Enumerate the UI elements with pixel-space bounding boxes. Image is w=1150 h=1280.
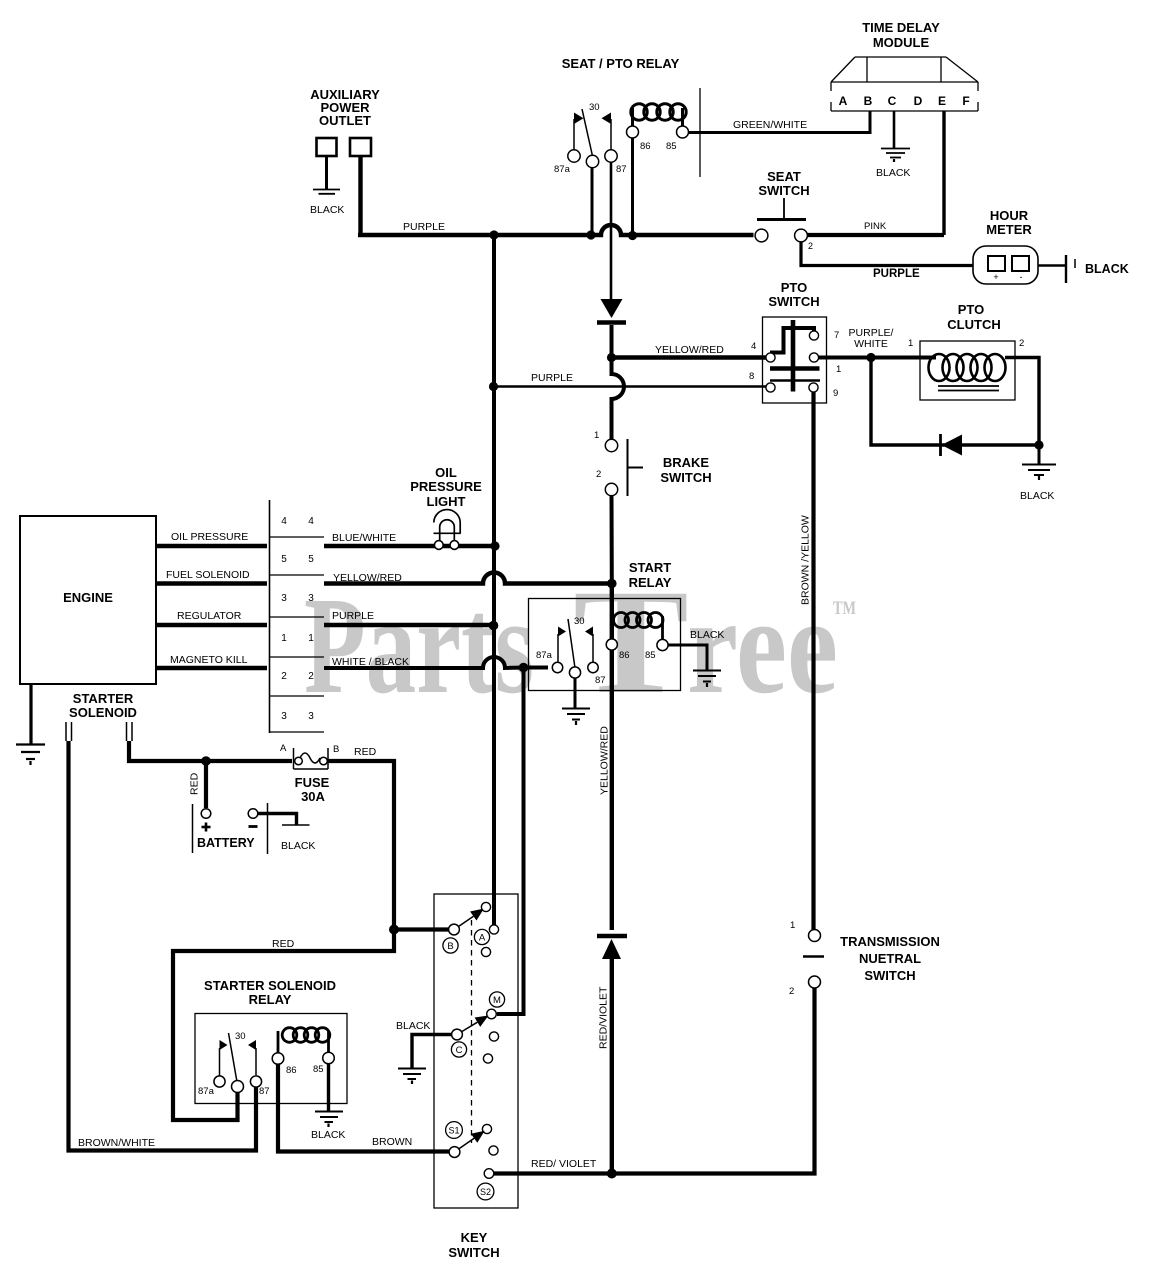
key switch contact C bbox=[452, 1029, 463, 1040]
ssr contact circle 87a bbox=[214, 1076, 225, 1087]
battery left plate bbox=[192, 804, 194, 853]
svg-text:1: 1 bbox=[308, 633, 314, 644]
stray vertical line bbox=[699, 88, 701, 177]
wire aux terminal1 to ground bbox=[325, 156, 328, 189]
svg-text:BLACK: BLACK bbox=[281, 840, 315, 852]
wire black key C to ground bbox=[412, 1035, 452, 1069]
seat switch label bbox=[758, 169, 809, 198]
svg-text:BRAKE: BRAKE bbox=[663, 455, 710, 470]
node junction yellowred/x611 relay bbox=[607, 579, 617, 589]
key switch arrow B-A bbox=[470, 909, 484, 921]
pto switch pin 8 circle bbox=[766, 383, 775, 392]
svg-text:1: 1 bbox=[836, 364, 841, 375]
svg-text:BLACK: BLACK bbox=[396, 1020, 430, 1032]
svg-text:PURPLE: PURPLE bbox=[332, 610, 374, 622]
wire relay 87 down to diode bbox=[610, 162, 613, 300]
transmission neutral switch label bbox=[840, 934, 940, 983]
key switch right circle ign bbox=[489, 925, 498, 934]
key switch arrow C-M bbox=[475, 1016, 489, 1027]
starter solenoid label bbox=[69, 691, 137, 720]
svg-text:3: 3 bbox=[281, 711, 287, 722]
wire starter solenoid pin2 to fuse bbox=[129, 741, 292, 761]
svg-text:BROWN /YELLOW: BROWN /YELLOW bbox=[800, 515, 812, 605]
ground engine bbox=[16, 745, 45, 766]
svg-text:METER: METER bbox=[986, 222, 1032, 237]
svg-text:BLACK: BLACK bbox=[690, 629, 724, 641]
svg-text:SEAT: SEAT bbox=[767, 169, 801, 184]
key switch contact B bbox=[449, 924, 460, 935]
wire start relay 85 to ground bbox=[668, 645, 707, 670]
wire hour meter right bbox=[1038, 264, 1066, 267]
svg-text:PTO: PTO bbox=[958, 302, 985, 317]
svg-text:30A: 30A bbox=[301, 789, 325, 804]
wire module pin E down bbox=[942, 111, 945, 235]
wire green/white relay 85 to module B bbox=[689, 111, 871, 133]
svg-text:CLUTCH: CLUTCH bbox=[947, 317, 1000, 332]
key switch contact S1 bbox=[449, 1147, 460, 1158]
svg-text:+: + bbox=[993, 272, 998, 282]
seat/pto relay pivot circle bbox=[586, 155, 598, 167]
start relay label bbox=[629, 560, 672, 590]
svg-text:OIL: OIL bbox=[435, 465, 457, 480]
label circled S2 bbox=[477, 1183, 494, 1200]
wire yellow/red row with hump bbox=[324, 573, 612, 584]
wire module pin C to ground bbox=[893, 111, 896, 148]
pto switch internal pole bar bbox=[791, 320, 796, 392]
wire diode to yellowred junction bbox=[610, 325, 614, 354]
key switch contact M bbox=[487, 1009, 497, 1019]
time delay module body bbox=[831, 57, 978, 111]
label circled A bbox=[474, 929, 489, 944]
ground aux outlet bbox=[313, 190, 340, 194]
label circled S1 bbox=[446, 1122, 463, 1139]
engine connector separators bbox=[270, 537, 325, 732]
start relay contact circle 87a bbox=[552, 662, 562, 672]
starter solenoid relay label bbox=[204, 978, 336, 1007]
start relay coil bbox=[613, 613, 664, 640]
aux outlet terminal 2 bbox=[350, 138, 371, 156]
brake switch label bbox=[660, 455, 711, 485]
pto switch internal low bar bbox=[770, 379, 820, 381]
seat/pto relay coil pin 85 bbox=[677, 126, 689, 138]
svg-text:85: 85 bbox=[645, 650, 656, 661]
oil pressure light label bbox=[410, 465, 482, 509]
aux outlet terminal 1 bbox=[317, 138, 337, 156]
pto clutch box bbox=[920, 341, 1015, 400]
wire relay pivot to bus bbox=[591, 168, 594, 234]
ground battery bbox=[282, 824, 310, 826]
seat switch contact right bbox=[795, 229, 808, 242]
node junction whiteblack/x523 bbox=[519, 663, 529, 673]
pto switch pin labels bbox=[749, 330, 841, 399]
fuse symbol bbox=[294, 748, 329, 769]
svg-text:87: 87 bbox=[595, 675, 606, 686]
svg-text:YELLOW/RED: YELLOW/RED bbox=[599, 726, 611, 795]
node junction bus/relay-pivot bbox=[586, 230, 595, 239]
start relay coil pin 86 bbox=[606, 639, 617, 650]
seat/pto relay coil pin 86 bbox=[627, 126, 639, 138]
seat switch actuator bbox=[757, 198, 806, 220]
svg-text:SWITCH: SWITCH bbox=[448, 1245, 499, 1260]
key switch contact S2 bbox=[484, 1169, 494, 1179]
wire red to starter solenoid relay 30 bbox=[173, 930, 394, 1121]
hour meter body bbox=[973, 246, 1038, 284]
svg-text:5: 5 bbox=[281, 554, 287, 565]
svg-text:E: E bbox=[938, 94, 946, 108]
key switch circle mid1 bbox=[489, 1032, 498, 1041]
label circled M bbox=[489, 992, 504, 1007]
svg-text:Parts: Parts bbox=[304, 569, 534, 723]
svg-text:3: 3 bbox=[308, 593, 314, 604]
svg-text:YELLOW/RED: YELLOW/RED bbox=[333, 572, 402, 584]
ground module bbox=[881, 149, 910, 163]
svg-text:MODULE: MODULE bbox=[873, 35, 930, 50]
svg-text:RED: RED bbox=[272, 938, 295, 950]
starter solenoid pin 1 bbox=[66, 722, 72, 741]
wire pink seat switch to module E bbox=[807, 233, 944, 237]
wire blue/white row bbox=[324, 544, 495, 548]
wire brake sw2 down to start relay junction bbox=[610, 496, 614, 584]
svg-text:ENGINE: ENGINE bbox=[63, 590, 113, 605]
svg-text:BLACK: BLACK bbox=[876, 167, 910, 179]
diode clutch bbox=[941, 434, 963, 456]
svg-text:D: D bbox=[914, 94, 923, 108]
svg-text:C: C bbox=[456, 1045, 463, 1056]
svg-text:RED/ VIOLET: RED/ VIOLET bbox=[531, 1158, 597, 1170]
svg-text:A: A bbox=[479, 933, 486, 944]
svg-text:SOLENOID: SOLENOID bbox=[69, 705, 137, 720]
key switch arm B-A bbox=[459, 916, 474, 926]
svg-text:87a: 87a bbox=[198, 1086, 215, 1097]
svg-text:87: 87 bbox=[259, 1086, 270, 1097]
svg-text:BLACK: BLACK bbox=[310, 204, 344, 216]
seat/pto relay contact circle 87 bbox=[605, 150, 617, 162]
wire yellow/red to pto pin4 bbox=[612, 355, 767, 359]
pto switch internal contact 4-7 path bbox=[770, 328, 814, 353]
wire pto pin1 to clutch bbox=[819, 356, 937, 360]
engine box bbox=[20, 516, 156, 684]
node junction bus/relay-86 bbox=[628, 231, 637, 240]
battery minus sign bbox=[249, 825, 258, 828]
ground start relay 85 bbox=[693, 671, 721, 688]
start relay box bbox=[529, 599, 681, 691]
wire battery minus to ground bbox=[258, 814, 297, 825]
node junction red/battery bbox=[201, 756, 211, 766]
svg-text:PURPLE: PURPLE bbox=[873, 268, 920, 280]
node junction diode/ground bbox=[1034, 440, 1043, 449]
transmission neutral switch contact 1 bbox=[809, 930, 821, 942]
start relay contact 87a stub and arrow bbox=[558, 627, 566, 664]
svg-text:86: 86 bbox=[619, 650, 630, 661]
svg-text:SEAT / PTO RELAY: SEAT / PTO RELAY bbox=[562, 56, 680, 71]
ground key switch C bbox=[398, 1069, 426, 1085]
wire clutch diode row bbox=[871, 358, 1039, 446]
svg-text:BLUE/WHITE: BLUE/WHITE bbox=[332, 532, 396, 544]
svg-text:S1: S1 bbox=[448, 1126, 459, 1136]
starter solenoid pin 2 bbox=[127, 722, 133, 741]
svg-text:2: 2 bbox=[808, 241, 813, 251]
wire white/black row with hump bbox=[324, 657, 548, 668]
svg-text:OIL PRESSURE: OIL PRESSURE bbox=[171, 531, 248, 543]
label circled B bbox=[443, 938, 458, 953]
wire x494 vertical bus to key switch bbox=[492, 235, 496, 925]
seat/pto relay contact 87a stub and arrow bbox=[574, 113, 584, 151]
wire engine regulator bbox=[156, 623, 267, 627]
label circled C bbox=[451, 1042, 466, 1057]
svg-text:PRESSURE: PRESSURE bbox=[410, 479, 482, 494]
svg-text:FUEL SOLENOID: FUEL SOLENOID bbox=[166, 569, 250, 581]
svg-text:MAGNETO KILL: MAGNETO KILL bbox=[170, 654, 248, 666]
svg-text:2: 2 bbox=[308, 671, 314, 682]
key switch circle S1 top bbox=[482, 1124, 491, 1133]
pto switch pin 7 circle bbox=[809, 331, 818, 340]
terminal bar hour meter bbox=[1065, 255, 1067, 283]
svg-text:BLACK: BLACK bbox=[311, 1129, 345, 1141]
svg-text:SWITCH: SWITCH bbox=[660, 470, 711, 485]
pto clutch core lines bbox=[938, 386, 999, 391]
svg-text:HOUR: HOUR bbox=[990, 208, 1029, 223]
wire red to battery plus bbox=[204, 761, 208, 808]
engine connector spine bbox=[269, 500, 271, 733]
svg-text:87: 87 bbox=[616, 164, 627, 175]
svg-text:TM: TM bbox=[833, 598, 856, 619]
svg-text:RED: RED bbox=[354, 746, 377, 758]
svg-text:PURPLE: PURPLE bbox=[531, 372, 573, 384]
key switch circle mid2 bbox=[483, 1054, 492, 1063]
node junction yellowred/x611 bbox=[607, 353, 616, 362]
brake switch contact 1 bbox=[605, 439, 617, 451]
svg-text:WHITE / BLACK: WHITE / BLACK bbox=[332, 656, 409, 668]
svg-text:RED: RED bbox=[189, 772, 201, 795]
start relay armature bbox=[568, 619, 575, 668]
pto switch pin 9 circle bbox=[809, 383, 818, 392]
svg-text:5: 5 bbox=[308, 554, 314, 565]
diode start circuit lower bbox=[597, 936, 627, 959]
svg-text:1: 1 bbox=[594, 430, 599, 441]
wire engine magneto kill bbox=[156, 666, 267, 670]
key switch box bbox=[434, 894, 518, 1208]
svg-text:2: 2 bbox=[596, 469, 601, 480]
key switch label bbox=[448, 1230, 499, 1260]
svg-text:87a: 87a bbox=[554, 164, 571, 175]
key switch circle S1 right bbox=[489, 1146, 498, 1155]
seat switch contact left bbox=[755, 229, 768, 242]
svg-text:PINK: PINK bbox=[864, 221, 887, 232]
seat/pto relay coil bbox=[631, 104, 686, 128]
svg-text:BROWN: BROWN bbox=[372, 1136, 412, 1148]
wire brown/white left vertical bbox=[69, 741, 257, 1151]
svg-text:A: A bbox=[280, 743, 287, 754]
wire clutch right side down bbox=[1005, 358, 1039, 446]
svg-text:SWITCH: SWITCH bbox=[864, 968, 915, 983]
transmission switch actuator bbox=[803, 955, 824, 958]
ssr coil pin 85 bbox=[323, 1052, 335, 1064]
svg-text:TIME DELAY: TIME DELAY bbox=[862, 20, 940, 35]
wire clutch ground stem bbox=[1038, 445, 1041, 464]
key switch circle below A bbox=[481, 947, 490, 956]
svg-text:SWITCH: SWITCH bbox=[758, 183, 809, 198]
battery minus terminal bbox=[248, 809, 258, 819]
svg-text:START: START bbox=[629, 560, 671, 575]
wire engine oilpressure bbox=[156, 544, 267, 548]
pto clutch label bbox=[947, 302, 1000, 332]
brake switch actuator bbox=[628, 439, 644, 496]
hour meter label bbox=[986, 208, 1032, 237]
pto switch internal mid bar bbox=[770, 366, 820, 371]
oil pressure light lamp bbox=[434, 510, 461, 550]
svg-text:KEY: KEY bbox=[461, 1230, 488, 1245]
node junction bluewhite/x494 bbox=[490, 541, 499, 550]
wire relay 86 to bus bbox=[631, 138, 634, 233]
wire engine ground stem bbox=[29, 684, 32, 744]
svg-text:NUETRAL: NUETRAL bbox=[859, 951, 921, 966]
time delay module label bbox=[862, 20, 940, 50]
svg-text:STARTER SOLENOID: STARTER SOLENOID bbox=[204, 978, 336, 993]
svg-text:87a: 87a bbox=[536, 650, 553, 661]
node junction red/key bbox=[389, 925, 399, 935]
key switch dashed axis bbox=[471, 920, 473, 1143]
pto switch pin 4 circle bbox=[766, 353, 775, 362]
ground pto clutch bbox=[1022, 465, 1056, 481]
svg-text:30: 30 bbox=[574, 616, 585, 627]
wire purple seat switch to hour meter bbox=[801, 242, 973, 266]
svg-text:1: 1 bbox=[790, 920, 795, 931]
wire x611 jog over purple bbox=[612, 358, 625, 440]
svg-text:FUSE: FUSE bbox=[295, 775, 330, 790]
node junction bus/x494 bbox=[489, 230, 498, 239]
engine connector pin numbers bbox=[281, 516, 314, 722]
svg-text:B: B bbox=[333, 744, 339, 755]
pto switch label bbox=[768, 280, 819, 309]
label PURPLE/WHITE bbox=[849, 327, 894, 350]
seat/pto relay contact 87 stub and arrow bbox=[602, 113, 612, 151]
svg-text:30: 30 bbox=[589, 102, 600, 113]
svg-text:TRANSMISSION: TRANSMISSION bbox=[840, 934, 940, 949]
svg-text:C: C bbox=[888, 94, 897, 108]
svg-text:1: 1 bbox=[908, 338, 913, 349]
ssr armature bbox=[229, 1033, 238, 1082]
svg-text:LIGHT: LIGHT bbox=[427, 494, 466, 509]
battery middle plate bbox=[267, 803, 269, 854]
svg-text:B: B bbox=[447, 941, 453, 952]
svg-text:F: F bbox=[962, 94, 969, 108]
svg-text:PURPLE: PURPLE bbox=[403, 221, 445, 233]
pto switch pin 1 circle bbox=[809, 353, 818, 362]
terminal tick hour meter bbox=[1074, 259, 1076, 268]
svg-text:WHITE: WHITE bbox=[854, 338, 888, 350]
svg-text:2: 2 bbox=[789, 986, 794, 997]
start relay contact 87 stub and arrow bbox=[585, 627, 593, 663]
svg-text:GREEN/WHITE: GREEN/WHITE bbox=[733, 119, 807, 131]
svg-text:REGULATOR: REGULATOR bbox=[177, 610, 242, 622]
module pin letters A-F bbox=[839, 94, 970, 108]
svg-text:85: 85 bbox=[666, 141, 677, 152]
svg-text:30: 30 bbox=[235, 1031, 246, 1042]
svg-text:86: 86 bbox=[286, 1065, 297, 1076]
ssr pivot circle bbox=[232, 1081, 244, 1093]
svg-text:OUTLET: OUTLET bbox=[319, 113, 371, 128]
svg-text:RELAY: RELAY bbox=[629, 575, 672, 590]
svg-text:4: 4 bbox=[281, 516, 287, 527]
svg-text:BLACK: BLACK bbox=[1020, 490, 1054, 502]
transmission neutral switch contact 2 bbox=[809, 976, 821, 988]
ssr coil bbox=[278, 1028, 330, 1053]
svg-text:S2: S2 bbox=[480, 1187, 491, 1197]
start relay pivot circle bbox=[569, 667, 580, 678]
svg-text:BLACK: BLACK bbox=[1085, 262, 1129, 276]
auxiliary power outlet label bbox=[310, 87, 380, 128]
svg-text:4: 4 bbox=[751, 341, 756, 352]
start relay coil pin 85 bbox=[657, 639, 668, 650]
svg-text:M: M bbox=[493, 995, 501, 1006]
ground ssr bbox=[315, 1112, 343, 1128]
svg-text:85: 85 bbox=[313, 1064, 324, 1075]
fuse terminal circles bbox=[295, 757, 303, 765]
wire purple row bbox=[324, 623, 494, 627]
seat/pto relay contact circle 87a bbox=[568, 150, 580, 162]
wire red/violet vertical bbox=[610, 959, 614, 1173]
svg-text:RED/VIOLET: RED/VIOLET bbox=[598, 986, 610, 1049]
wire engine fuel solenoid bbox=[156, 581, 267, 585]
brake switch contact 2 bbox=[605, 483, 617, 495]
svg-text:-: - bbox=[1020, 272, 1023, 282]
svg-text:3: 3 bbox=[281, 593, 287, 604]
fuse label bbox=[295, 775, 330, 804]
svg-text:PTO: PTO bbox=[781, 280, 808, 295]
key switch arm S1 bbox=[459, 1138, 474, 1148]
ssr contact 87a stub and arrow bbox=[220, 1040, 228, 1076]
key switch arrow S1 bbox=[471, 1131, 485, 1143]
node junction purplewhite bbox=[866, 353, 875, 362]
ssr contact circle 87 bbox=[250, 1076, 261, 1087]
node junction purple/x494 engine bbox=[489, 621, 499, 631]
svg-text:B: B bbox=[864, 94, 873, 108]
svg-text:SWITCH: SWITCH bbox=[768, 294, 819, 309]
svg-text:86: 86 bbox=[640, 141, 651, 152]
ssr coil pin 86 bbox=[272, 1053, 284, 1065]
svg-text:YELLOW/RED: YELLOW/RED bbox=[655, 344, 724, 356]
svg-text:7: 7 bbox=[834, 330, 839, 341]
ssr contact 87 stub and arrow bbox=[248, 1040, 256, 1075]
wire x523 vertical to key switch M bbox=[497, 668, 524, 1015]
diode seat circuit top bbox=[597, 299, 626, 323]
svg-text:BROWN/WHITE: BROWN/WHITE bbox=[78, 1137, 155, 1149]
svg-text:BATTERY: BATTERY bbox=[197, 836, 255, 850]
svg-text:2: 2 bbox=[281, 671, 287, 682]
starter solenoid relay box bbox=[195, 1014, 347, 1104]
wire aux terminal2 to purple bus bbox=[358, 156, 362, 235]
svg-text:4: 4 bbox=[308, 516, 314, 527]
battery plus terminal bbox=[201, 809, 211, 819]
pto clutch coil bbox=[929, 354, 1006, 381]
hour meter +/- marks bbox=[993, 272, 1022, 282]
wire purple to pto pin8 bbox=[494, 385, 766, 387]
svg-text:1: 1 bbox=[281, 633, 287, 644]
wire red/violet key S2 to transmission bbox=[494, 988, 815, 1174]
wire ssr 85 to ground bbox=[327, 1064, 330, 1111]
wire red fuse to key switch B bbox=[328, 761, 449, 930]
svg-text:A: A bbox=[839, 94, 848, 108]
pto switch box bbox=[763, 317, 827, 403]
wire yellow/red vertical through start relay bbox=[610, 584, 614, 931]
svg-text:RELAY: RELAY bbox=[249, 992, 292, 1007]
node junction redviolet/x611 bbox=[607, 1169, 617, 1179]
key switch top circle A bbox=[481, 902, 490, 911]
hour meter terminal squares bbox=[988, 256, 1029, 271]
wire brown ssr 86 to key S1 bbox=[278, 1064, 449, 1152]
wire brown/yellow pto pin9 to transmission bbox=[811, 392, 815, 930]
svg-text:2: 2 bbox=[1019, 338, 1024, 349]
